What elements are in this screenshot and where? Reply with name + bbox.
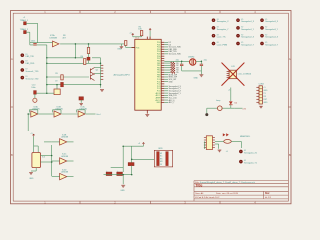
wire bbox=[52, 141, 60, 143]
capacitor C4 bbox=[180, 64, 183, 65]
resistor inline bbox=[171, 67, 175, 69]
wire bbox=[164, 53, 168, 55]
wire bbox=[164, 81, 168, 83]
svg-text:22p: 22p bbox=[204, 59, 207, 61]
ISP pin labels bbox=[160, 153, 163, 166]
wire bbox=[38, 113, 54, 115]
capacitor C10 bbox=[34, 91, 37, 95]
ground bbox=[29, 173, 33, 175]
resistor R2 bbox=[140, 31, 142, 36]
wire feedback bbox=[37, 110, 39, 114]
svg-text:LM324N: LM324N bbox=[61, 137, 69, 139]
global label flag Sensors2_TXD bbox=[21, 76, 24, 79]
svg-text:C9: C9 bbox=[55, 81, 57, 83]
wire bbox=[164, 88, 168, 90]
pin stub PB7 bbox=[161, 76, 164, 78]
wire bbox=[86, 113, 96, 115]
wire bbox=[44, 141, 52, 143]
pin stub PD6 bbox=[161, 55, 164, 57]
ground bbox=[100, 90, 104, 92]
power +5 bbox=[142, 143, 144, 145]
pin stub PD1 bbox=[161, 44, 164, 46]
op-amp IC4C bbox=[60, 158, 67, 164]
svg-text:PC6: PC6 bbox=[136, 47, 140, 49]
capacitor C1 (electrolytic) bbox=[106, 172, 112, 175]
pin stub PC4 bbox=[161, 88, 164, 90]
pin stub PD5 bbox=[161, 53, 164, 55]
svg-text:R4: R4 bbox=[81, 56, 83, 58]
connector J3 pin stubs bbox=[227, 72, 230, 78]
wire bbox=[37, 146, 39, 153]
svg-text:Servogalvo4_Y: Servogalvo4_Y bbox=[265, 43, 279, 46]
wire bbox=[164, 48, 168, 50]
svg-text:Servogalvo_X: Servogalvo_X bbox=[217, 20, 230, 23]
svg-text:GND: GND bbox=[156, 102, 161, 104]
svg-text:A: A bbox=[289, 57, 291, 61]
IC6 body bbox=[206, 136, 212, 150]
test point TP2 bbox=[24, 31, 27, 34]
pin stub PB2 bbox=[161, 64, 164, 66]
wire bbox=[26, 22, 37, 24]
op-amp IC4D bbox=[60, 173, 67, 179]
svg-text:Servogalvo3_Y: Servogalvo3_Y bbox=[265, 28, 279, 31]
resistor inline bbox=[171, 64, 175, 66]
wire bbox=[62, 113, 78, 115]
wire bbox=[182, 70, 202, 72]
wire bbox=[26, 31, 30, 33]
wire bbox=[164, 64, 170, 66]
svg-text:ADC_7: ADC_7 bbox=[169, 101, 175, 104]
resistor R1 bbox=[125, 41, 127, 46]
title block bbox=[194, 181, 288, 202]
pin stub PD7 bbox=[161, 57, 164, 59]
IC U1 ATmega48 body bbox=[135, 39, 161, 110]
svg-text:Servogalvo3_X: Servogalvo3_X bbox=[265, 20, 279, 23]
svg-text:Laser_PWM: Laser_PWM bbox=[217, 43, 228, 46]
wire bbox=[37, 23, 39, 42]
wire bbox=[164, 97, 168, 99]
wire bbox=[36, 92, 54, 94]
ground bbox=[199, 75, 203, 77]
wire bbox=[131, 166, 133, 175]
resistor inline bbox=[171, 62, 175, 64]
transistor Q1 bbox=[91, 68, 95, 75]
op-amp IC2A bbox=[53, 41, 59, 47]
microphone MIC1 bbox=[33, 98, 37, 102]
wire bbox=[41, 161, 52, 163]
wire bbox=[235, 107, 243, 109]
connector J3 (LCD, DNP) body bbox=[229, 70, 236, 79]
connector ISP pin strip right bbox=[166, 152, 169, 166]
svg-text:Rev:: Rev: bbox=[265, 193, 270, 195]
svg-text:100n: 100n bbox=[31, 87, 35, 89]
wire bbox=[35, 168, 37, 171]
wire bbox=[218, 144, 220, 149]
wire bbox=[34, 94, 36, 98]
junction dot bbox=[46, 92, 48, 94]
resistor inline bbox=[171, 69, 175, 71]
svg-text:Title: Title bbox=[195, 184, 202, 188]
power +5V MCU bbox=[149, 29, 151, 31]
wire bbox=[67, 176, 74, 178]
frame tick marks bbox=[11, 11, 292, 204]
op-amp IC4B bbox=[60, 139, 67, 145]
svg-text:+5: +5 bbox=[228, 89, 230, 91]
crystal Y1 bbox=[190, 59, 196, 65]
svg-text:GND: GND bbox=[117, 48, 122, 50]
wire bbox=[120, 44, 122, 46]
IC5 opto body bbox=[32, 153, 41, 168]
wire bbox=[95, 73, 101, 75]
svg-text:A: A bbox=[11, 57, 13, 61]
sheet frame inner border bbox=[13, 13, 288, 201]
svg-text:Sensors1_TXD: Sensors1_TXD bbox=[26, 70, 39, 73]
wire bbox=[231, 140, 241, 142]
wire bbox=[222, 107, 235, 109]
global label flag Laser_PWM bbox=[212, 42, 215, 45]
wire feedback bbox=[84, 110, 86, 114]
op-amp IC3A bbox=[31, 111, 38, 117]
wire bbox=[33, 136, 35, 152]
wire bbox=[88, 54, 90, 58]
wire MCU avcc stub bbox=[149, 37, 151, 40]
resistor R5 bbox=[61, 75, 63, 80]
svg-text:DB9_RXD: DB9_RXD bbox=[26, 63, 35, 65]
svg-text:LM324N: LM324N bbox=[61, 156, 69, 158]
wire bbox=[31, 170, 36, 172]
wire bbox=[164, 99, 168, 101]
power +5 bbox=[132, 34, 134, 36]
connector J4 body bbox=[259, 86, 262, 104]
wire bbox=[164, 101, 168, 103]
pin stub AVCC bbox=[161, 99, 164, 101]
wire bbox=[47, 84, 101, 86]
svg-text:MMA7361L: MMA7361L bbox=[240, 135, 251, 138]
ground bbox=[218, 150, 222, 152]
wire bbox=[27, 114, 29, 131]
svg-text:LM324N: LM324N bbox=[61, 171, 69, 173]
svg-text:GND: GND bbox=[194, 78, 199, 80]
wire bbox=[164, 60, 189, 62]
wire bbox=[215, 143, 219, 145]
wire bbox=[164, 94, 168, 96]
sheet frame outer border bbox=[11, 11, 292, 204]
op-amp IC3C bbox=[78, 111, 85, 117]
svg-text:16MHz: 16MHz bbox=[188, 56, 194, 58]
global label flag Servogalvo1_Y bbox=[236, 26, 239, 29]
svg-text:Servogalvo_Y1: Servogalvo_Y1 bbox=[244, 162, 257, 165]
wire bbox=[100, 58, 102, 88]
MCU bottom gnd pin bbox=[146, 110, 148, 114]
junction dot bbox=[75, 43, 77, 45]
wire bbox=[141, 36, 143, 37]
wire bbox=[56, 85, 58, 89]
wire bbox=[52, 176, 60, 178]
pin stub PD0 bbox=[161, 41, 164, 43]
frame zone labels bbox=[11, 10, 291, 204]
inductor L1 (ellipse) bbox=[224, 140, 232, 144]
resistor R3 bbox=[87, 48, 89, 54]
wire bbox=[46, 85, 48, 94]
pin stub PB6 bbox=[161, 74, 164, 76]
wire bbox=[88, 44, 90, 48]
svg-text:LCD_CONN16: LCD_CONN16 bbox=[238, 74, 252, 76]
wire bbox=[200, 66, 202, 75]
wire bbox=[164, 92, 168, 94]
pin stub PC5 bbox=[161, 90, 164, 92]
wire bbox=[92, 57, 101, 59]
wire bbox=[41, 155, 52, 157]
svg-text:GND: GND bbox=[263, 90, 268, 92]
resistor inline bbox=[171, 71, 175, 73]
wire bbox=[29, 32, 31, 45]
capacitor C5 bbox=[200, 64, 203, 65]
global label flag Servogalvo4_X bbox=[260, 34, 263, 37]
svg-text:LCD: LCD bbox=[231, 66, 235, 68]
wire bbox=[164, 44, 168, 46]
connector ISP body bbox=[154, 150, 172, 167]
connector ladder J2 bbox=[101, 65, 104, 79]
wire feedback bbox=[60, 110, 62, 114]
wire bbox=[149, 31, 151, 40]
svg-text:B: B bbox=[289, 153, 291, 157]
global label flag DB9_TXD bbox=[21, 54, 24, 57]
test point TP1 bbox=[24, 22, 27, 25]
global label flag Servogalvo2_Y bbox=[236, 42, 239, 45]
global label flag Servogalvo1_X bbox=[236, 19, 239, 22]
pin stub PB1 bbox=[161, 62, 164, 64]
wire bbox=[164, 76, 168, 78]
ground bbox=[121, 185, 125, 187]
wire bbox=[164, 78, 168, 80]
wire bbox=[207, 107, 218, 109]
wire bbox=[80, 100, 82, 103]
wire bbox=[67, 160, 74, 162]
wire bbox=[131, 146, 133, 162]
wire bbox=[196, 60, 201, 62]
global label flag Servogalvo bbox=[239, 160, 242, 163]
wire bbox=[34, 145, 39, 147]
pin stub ADC7 bbox=[161, 94, 164, 96]
potentiometer RV1 bbox=[54, 89, 60, 95]
resistor R4 bbox=[84, 59, 86, 65]
svg-text:Q1: Q1 bbox=[96, 70, 99, 72]
svg-text:LM358N: LM358N bbox=[50, 37, 58, 39]
buzzer SP1 bbox=[79, 97, 83, 100]
wire bbox=[67, 141, 74, 143]
pin stub PC0 bbox=[161, 78, 164, 80]
wire bbox=[132, 158, 154, 160]
pin stub PB3 bbox=[161, 67, 164, 69]
LED D4 bbox=[226, 133, 229, 136]
DNP cross-out X bbox=[222, 63, 244, 86]
wire bbox=[88, 60, 90, 63]
global label flag Laser_TTL bbox=[212, 34, 215, 37]
svg-text:DB9_TXD: DB9_TXD bbox=[26, 56, 35, 58]
op-amp IC3B bbox=[54, 111, 61, 117]
svg-text:Atmega48-20PU: Atmega48-20PU bbox=[114, 74, 131, 77]
wire bbox=[164, 46, 168, 48]
global label flag Servogalvo3_Y bbox=[260, 26, 263, 29]
pin stub PD4 bbox=[161, 51, 164, 53]
diode D2 bbox=[229, 101, 233, 104]
ground bbox=[259, 106, 263, 108]
global label flag Sensors1_TXD bbox=[21, 68, 24, 71]
wire bbox=[164, 62, 170, 64]
capacitor C2 (electrolytic) bbox=[117, 172, 123, 175]
ground bbox=[145, 114, 149, 116]
wire bbox=[181, 61, 183, 64]
ground bbox=[79, 103, 83, 105]
wire bbox=[230, 105, 232, 108]
wire bbox=[215, 140, 224, 142]
wire bbox=[204, 141, 206, 149]
global label flag Servogalvo3_X bbox=[260, 19, 263, 22]
connector ISP pin strip left bbox=[157, 152, 160, 166]
capacitor C9 bbox=[61, 82, 64, 86]
wire bbox=[60, 43, 124, 45]
wire bbox=[164, 74, 168, 76]
wire bbox=[95, 67, 101, 69]
pin stub RESET bbox=[132, 47, 136, 49]
wire bbox=[164, 71, 170, 73]
wire bbox=[143, 145, 145, 146]
wire bbox=[47, 57, 84, 59]
wire bbox=[181, 66, 183, 71]
wire vertical bus bbox=[51, 145, 53, 176]
svg-text:lamp: lamp bbox=[216, 100, 220, 102]
svg-text:Servogalvo_Y: Servogalvo_Y bbox=[217, 28, 230, 31]
lamp LA1 bbox=[218, 106, 223, 111]
capacitor C7 bbox=[87, 57, 90, 60]
pin stub ADC6 bbox=[161, 92, 164, 94]
svg-text:Servogalvo4_X: Servogalvo4_X bbox=[265, 36, 279, 39]
wire bbox=[30, 44, 47, 46]
wire bbox=[164, 41, 168, 43]
capacitor C6 bbox=[33, 44, 36, 45]
global label flag Servogalvo2_X bbox=[236, 34, 239, 37]
wire bbox=[47, 62, 101, 64]
svg-text:GND: GND bbox=[169, 81, 174, 83]
pin stub PC3 bbox=[161, 85, 164, 87]
wire bus vertical bbox=[46, 45, 48, 85]
wire MCU vcc stub bbox=[146, 37, 148, 40]
pin stub GND bbox=[161, 101, 164, 103]
svg-text:22p: 22p bbox=[176, 59, 179, 61]
pin stub PD2 bbox=[161, 46, 164, 48]
global label flag Servogalvo_Y bbox=[212, 26, 215, 29]
svg-text:Sensors2_RXD: Sensors2_RXD bbox=[169, 54, 182, 56]
global label flag Servogalvo_X bbox=[212, 19, 215, 22]
svg-text:File: /home/ff/eagle/f_duino_7: File: /home/ff/eagle/f_duino_7.1-brd/f_d… bbox=[195, 181, 255, 184]
wire bbox=[52, 160, 60, 162]
wire bbox=[30, 42, 53, 44]
wire bbox=[126, 47, 135, 49]
wire bbox=[230, 88, 232, 102]
svg-text:Sensors2_TXD: Sensors2_TXD bbox=[26, 78, 39, 81]
svg-text:IC5: IC5 bbox=[42, 156, 45, 158]
wire bbox=[74, 44, 76, 58]
wire bbox=[111, 166, 124, 168]
wire bbox=[164, 85, 168, 87]
wire bbox=[240, 141, 242, 148]
connector J4 pin stubs bbox=[256, 87, 259, 102]
junction dot bbox=[205, 113, 208, 116]
svg-text:100n: 100n bbox=[31, 41, 35, 43]
svg-text:4K7: 4K7 bbox=[62, 37, 65, 39]
svg-text:Laser_TTL: Laser_TTL bbox=[217, 36, 226, 39]
svg-text:B: B bbox=[11, 153, 13, 157]
diode D1 bbox=[128, 163, 134, 166]
transistor Q2 bbox=[91, 74, 95, 81]
power +5 bbox=[33, 134, 35, 136]
IC6 pin stubs bbox=[204, 138, 215, 148]
svg-text:GND: GND bbox=[263, 102, 268, 104]
svg-text:Servogalvo1_X: Servogalvo1_X bbox=[241, 20, 255, 23]
ground bbox=[120, 47, 124, 49]
wire bbox=[125, 45, 127, 47]
svg-text:Servogalvo_X1: Servogalvo_X1 bbox=[244, 151, 257, 154]
pin stub AREF bbox=[161, 97, 164, 99]
wire bbox=[164, 90, 168, 92]
wire bbox=[122, 146, 124, 172]
svg-text:Vctrl: Vctrl bbox=[96, 113, 101, 116]
wire bbox=[164, 51, 168, 53]
svg-text:Servogalvo2_X: Servogalvo2_X bbox=[241, 36, 255, 39]
global label flag DB9_RXD bbox=[21, 60, 24, 63]
pin stub PC1 bbox=[161, 81, 164, 83]
pin stub PD3 bbox=[161, 48, 164, 50]
wire bbox=[200, 61, 202, 64]
svg-text:Size: A4 Date: ven. 09 oct 2: Size: A4 Date: ven. 09 oct 2015 bbox=[195, 192, 238, 195]
global label flag Servogalvo bbox=[239, 150, 242, 153]
wire bbox=[123, 145, 143, 147]
svg-text:CON2: CON2 bbox=[259, 83, 264, 85]
svg-text:Servogalvo2_Y: Servogalvo2_Y bbox=[241, 43, 255, 46]
pin stub PC2 bbox=[161, 83, 164, 85]
svg-text:+5: +5 bbox=[263, 87, 265, 89]
wire bbox=[104, 174, 132, 176]
svg-text:+5: +5 bbox=[226, 151, 228, 153]
wire bbox=[133, 36, 142, 38]
svg-text:R5: R5 bbox=[55, 73, 57, 75]
wire bbox=[132, 36, 134, 37]
svg-text:GND: GND bbox=[29, 178, 34, 180]
wire bbox=[28, 113, 31, 115]
pin stub PB0 bbox=[161, 60, 164, 62]
LED D3 bbox=[223, 133, 226, 136]
wire bbox=[122, 175, 124, 185]
pin stub PB5 bbox=[161, 71, 164, 73]
wire bbox=[164, 67, 170, 69]
wire bbox=[206, 108, 208, 113]
pin stub PB4 bbox=[161, 69, 164, 71]
wire bbox=[47, 76, 89, 78]
wire bbox=[164, 69, 170, 71]
global label flag Servogalvo4_Y bbox=[260, 42, 263, 45]
svg-text:Servogalvo1_Y: Servogalvo1_Y bbox=[241, 28, 255, 31]
svg-text:GND: GND bbox=[120, 190, 125, 192]
